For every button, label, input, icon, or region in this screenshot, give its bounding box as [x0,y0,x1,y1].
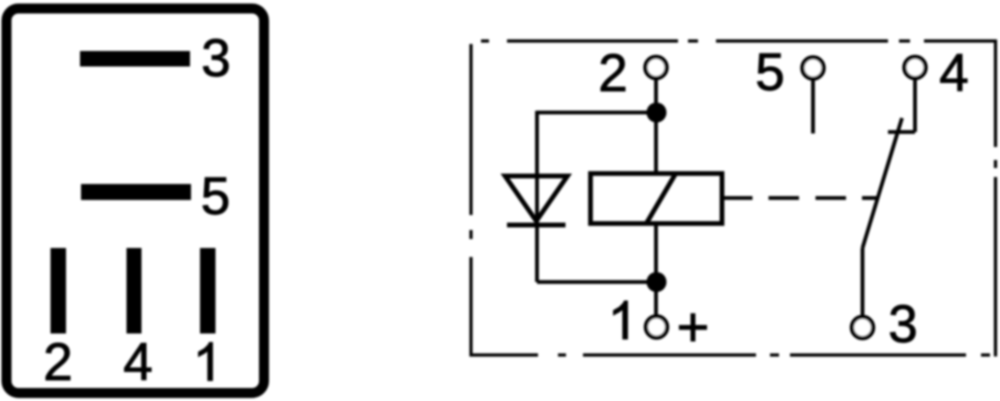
diode D1 cathode bar [507,223,566,228]
pin 1 label [199,343,213,381]
pin slot 3 (top horizontal blade) [80,51,190,67]
pin slot 5 (middle horizontal blade) [81,184,191,200]
pin slot 1 (bottom-right vertical blade) [200,248,216,334]
wire armature to terminal 3 [861,248,865,317]
svg-text:4: 4 [123,333,152,392]
svg-text:4: 4 [939,44,968,103]
svg-text:3: 3 [201,29,230,88]
svg-text:5: 5 [755,43,784,102]
wire diode branch vertical [535,111,539,282]
terminal 1 label [614,301,628,339]
svg-text:+: + [677,295,710,358]
pin slot 4 (bottom-middle vertical blade) [127,248,142,334]
wire node A to coil top [654,113,658,174]
pin slot 2 (bottom-left vertical blade) [51,248,67,334]
diode D1 triangle (anode) [505,176,568,221]
terminal 4 circle [904,57,925,78]
schematic boundary bottom edge (dash-dot) [470,353,991,356]
terminal 1 circle [646,316,667,337]
node B junction dot [647,272,667,292]
terminal 3 circle [852,317,873,338]
wire terminal 4 down [913,78,917,132]
svg-text:2: 2 [43,333,72,392]
schematic boundary left edge (dash-dot) [469,44,472,357]
svg-text:2: 2 [598,44,627,103]
schematic boundary top edge (dash-dot) [481,39,997,42]
node A junction dot [647,103,667,123]
wire diode to bottom rail [537,280,657,284]
terminal 5 circle [802,57,823,78]
svg-text:5: 5 [201,167,230,226]
relay coil K1 diagonal stroke [646,173,676,224]
relay body outline (pinout view) [7,9,265,394]
relay coil K1 box [591,174,723,224]
terminal 5 stub wire [811,79,815,134]
mechanical link dashed line [769,196,877,200]
terminal 2 circle [645,57,666,78]
svg-text:3: 3 [888,295,917,354]
wire coil to mechanical link [722,196,753,200]
wire node A to diode branch (horizontal) [537,111,656,115]
schematic boundary right edge (dash-dot) [994,40,997,357]
switch fixed contact tick [888,130,915,134]
wire coil bottom to node B [654,224,658,315]
switch armature diagonal [863,118,903,248]
wire terminal 2 to node A [654,78,658,113]
